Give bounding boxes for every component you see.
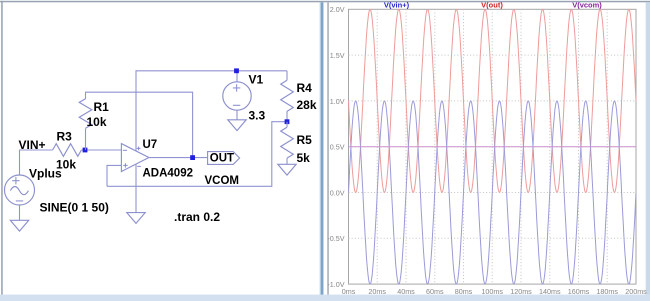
node output junction bbox=[190, 155, 195, 160]
node V1/rail junction bbox=[234, 68, 239, 73]
svg-text:40ms: 40ms bbox=[397, 287, 415, 296]
trace V(vcom) flat 0.5V bbox=[349, 146, 637, 148]
wire R5 bottom lead bbox=[286, 158, 288, 164]
wire op-amp output bbox=[149, 157, 208, 159]
wire R3 right lead to junction bbox=[81, 149, 121, 151]
y axis labels bbox=[327, 5, 344, 289]
svg-text:R1: R1 bbox=[94, 100, 110, 114]
wire VIN+ net: source top to R3 bbox=[20, 150, 53, 175]
svg-text:V(vin+): V(vin+) bbox=[384, 1, 410, 10]
x axis labels bbox=[342, 287, 647, 296]
svg-text:R5: R5 bbox=[297, 133, 313, 147]
svg-text:R3: R3 bbox=[57, 130, 73, 144]
svg-text:0ms: 0ms bbox=[342, 287, 356, 296]
svg-text:5k: 5k bbox=[297, 151, 311, 165]
op-amp U7 bbox=[121, 144, 148, 172]
svg-text:SINE(0 1 50): SINE(0 1 50) bbox=[40, 201, 109, 215]
wire op-amp +input bbox=[107, 165, 121, 186]
plot grid bbox=[349, 9, 637, 284]
resistor R4 bbox=[281, 80, 294, 111]
svg-text:VIN+: VIN+ bbox=[19, 138, 46, 152]
svg-text:100ms: 100ms bbox=[481, 287, 503, 296]
svg-text:180ms: 180ms bbox=[596, 287, 618, 296]
svg-text:160ms: 160ms bbox=[568, 287, 590, 296]
plot pane border bbox=[349, 9, 637, 284]
svg-text:28k: 28k bbox=[297, 98, 317, 112]
svg-text:10k: 10k bbox=[87, 115, 107, 129]
window chrome: plot window left border bbox=[327, 2, 329, 294]
svg-text:80ms: 80ms bbox=[455, 287, 473, 296]
ground below V1 bbox=[228, 120, 246, 131]
svg-text:V(vcom): V(vcom) bbox=[572, 1, 602, 10]
wire Vplus bottom lead bbox=[19, 205, 21, 221]
resistor R5 bbox=[281, 127, 294, 158]
svg-text:60ms: 60ms bbox=[426, 287, 444, 296]
ground below Vplus bbox=[10, 220, 28, 231]
svg-text:1.5V: 1.5V bbox=[330, 51, 345, 60]
svg-text:V1: V1 bbox=[249, 72, 264, 86]
window chrome: bottom band bbox=[0, 295, 650, 301]
svg-text:1.0V: 1.0V bbox=[330, 97, 345, 106]
svg-text:120ms: 120ms bbox=[510, 287, 532, 296]
svg-text:2.0V: 2.0V bbox=[330, 5, 345, 14]
window chrome: right band bbox=[646, 2, 650, 294]
window chrome: top border bbox=[0, 1, 650, 3]
wire R5 top lead bbox=[286, 122, 288, 128]
svg-text:.tran 0.2: .tran 0.2 bbox=[174, 210, 220, 224]
svg-text:140ms: 140ms bbox=[539, 287, 561, 296]
wire R1 top lead + feedback to output bbox=[86, 92, 193, 157]
wire V+ supply up to rail bbox=[136, 71, 287, 151]
svg-text:ADA4092: ADA4092 bbox=[143, 168, 194, 180]
wire R1 bottom lead bbox=[85, 129, 87, 151]
ground below op-amp bbox=[127, 213, 145, 224]
svg-text:20ms: 20ms bbox=[368, 287, 386, 296]
wire V1 top lead bbox=[236, 71, 238, 82]
svg-text:3.3: 3.3 bbox=[249, 109, 266, 123]
wire V- supply down to ground bbox=[135, 164, 137, 212]
flag OUT bbox=[208, 152, 240, 165]
svg-text:0.0V: 0.0V bbox=[330, 188, 345, 197]
wire R4 top lead bbox=[286, 71, 288, 80]
wire VCOM net: +input to R4/R5 divider bbox=[107, 122, 287, 187]
svg-text:V(out): V(out) bbox=[481, 1, 503, 10]
node junction R3/R1 bbox=[83, 148, 88, 153]
voltage source V1 bbox=[223, 82, 251, 110]
svg-text:VCOM: VCOM bbox=[205, 175, 240, 187]
wire V1 bottom lead bbox=[236, 110, 238, 120]
resistor R1 bbox=[79, 99, 92, 129]
node junction R4/R5 bbox=[285, 119, 290, 124]
svg-text:OUT: OUT bbox=[210, 153, 234, 165]
window chrome: divider blue strip bbox=[320, 2, 324, 294]
svg-text:R4: R4 bbox=[297, 81, 313, 95]
svg-text:0.5V: 0.5V bbox=[330, 143, 345, 152]
voltage source Vplus bbox=[5, 175, 35, 205]
window chrome: left border bbox=[1, 1, 3, 295]
trace V(vin+) blue sine bbox=[349, 101, 637, 284]
svg-text:-0.5V: -0.5V bbox=[327, 234, 344, 243]
ground below R5 bbox=[278, 164, 296, 175]
trace V(out) red sine bbox=[349, 10, 637, 193]
svg-text:200ms: 200ms bbox=[625, 287, 647, 296]
svg-text:10k: 10k bbox=[56, 157, 76, 171]
wire R4 bottom lead bbox=[286, 111, 288, 122]
svg-text:U7: U7 bbox=[143, 139, 158, 151]
resistor R3 bbox=[53, 144, 82, 157]
